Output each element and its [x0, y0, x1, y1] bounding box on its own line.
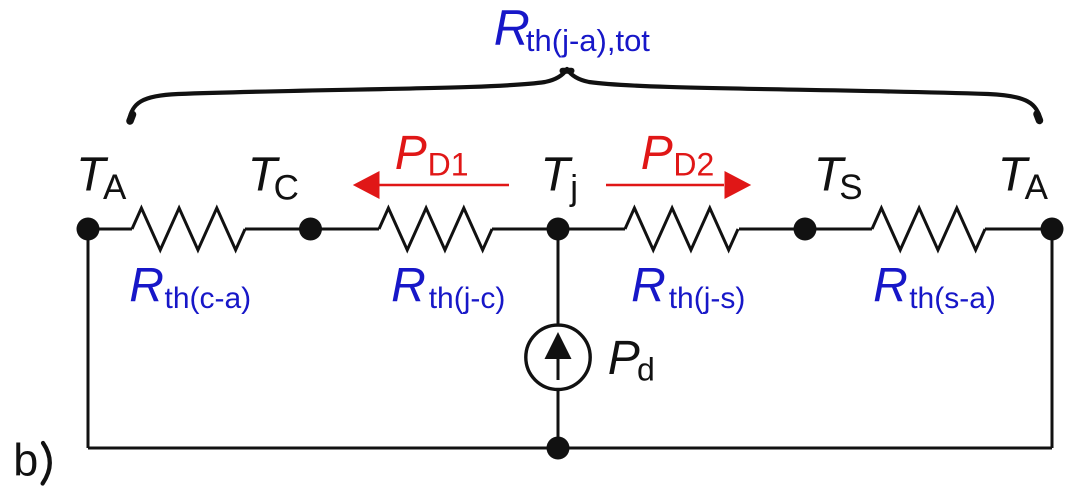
wire rail Rth(s-a) to TA_right [985, 228, 1052, 231]
svg-text:th(j-a),tot: th(j-a),tot [526, 23, 650, 58]
arrow PD2 (power flow right) [606, 171, 751, 199]
current source Pd [526, 325, 590, 389]
svg-text:A: A [1025, 168, 1049, 207]
svg-text:R: R [391, 259, 426, 312]
node Tj [547, 218, 570, 241]
svg-text:P: P [608, 332, 640, 385]
svg-text:S: S [839, 168, 862, 207]
brace over total thermal resistance [129, 69, 1041, 122]
label TC [248, 149, 299, 208]
svg-text:th(c-a): th(c-a) [165, 282, 252, 315]
label PD2 [641, 127, 715, 183]
svg-text:D1: D1 [428, 147, 469, 183]
svg-text:th(j-s): th(j-s) [669, 282, 746, 315]
label Pd (dissipated power) [608, 332, 655, 388]
resistor Rth(c-a) [132, 208, 245, 250]
resistor Rth(s-a) [872, 208, 985, 250]
label PD1 [395, 127, 469, 183]
label Tj [541, 149, 579, 208]
svg-text:C: C [274, 169, 299, 208]
node TS [794, 218, 817, 241]
node TA left [77, 218, 100, 241]
label Rth(c-a) [129, 259, 251, 315]
wire rail Rth(j-s) to Rth(s-a) through node TS [739, 228, 872, 231]
label Rth(j-c) [391, 259, 505, 315]
node TC [299, 218, 322, 241]
label b) figure tag [13, 434, 50, 485]
arrow PD1 (power flow left) [353, 171, 509, 199]
svg-text:R: R [631, 259, 666, 312]
svg-text:P: P [641, 127, 673, 180]
svg-text:j: j [569, 169, 578, 208]
resistor Rth(j-s) [625, 208, 738, 250]
label TA right [998, 149, 1049, 208]
label TA left [76, 149, 127, 208]
wire rail Rth(j-c) to Rth(j-s) through node Tj [492, 228, 625, 231]
svg-text:R: R [129, 259, 164, 312]
junction bottom node [547, 437, 570, 460]
wire rail Rth(c-a) to Rth(j-c) through node TC [245, 228, 379, 231]
label Rth(j-a),tot [494, 0, 651, 58]
svg-text:d: d [637, 352, 655, 388]
label Rth(s-a) [873, 259, 996, 315]
resistor Rth(j-c) [379, 208, 492, 250]
label Rth(j-s) [631, 259, 745, 315]
svg-text:R: R [494, 0, 530, 56]
svg-text:T: T [541, 149, 574, 202]
wire right vertical TA_right down [1051, 229, 1054, 448]
svg-text:A: A [103, 168, 127, 207]
svg-text:th(j-c): th(j-c) [429, 282, 506, 315]
svg-text:th(s-a): th(s-a) [909, 282, 996, 315]
svg-text:D2: D2 [673, 147, 714, 183]
wire current source down to bottom rail [557, 391, 560, 448]
svg-text:R: R [873, 259, 908, 312]
node TA right [1041, 218, 1064, 241]
wire rail TA_left to Rth(c-a) [88, 228, 132, 231]
svg-text:b: b [13, 434, 38, 485]
svg-text:P: P [395, 127, 427, 180]
wire bottom rail [88, 447, 1052, 450]
label TS [814, 149, 863, 208]
wire Tj down to current source [557, 229, 560, 324]
wire left vertical TA_left down [87, 229, 90, 448]
